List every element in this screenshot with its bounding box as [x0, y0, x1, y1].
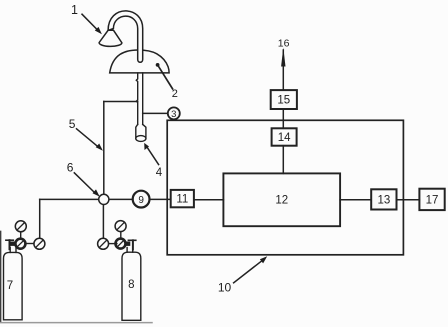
svg-text:13: 13 [378, 194, 391, 206]
svg-text:6: 6 [67, 160, 74, 174]
svg-text:4: 4 [156, 167, 163, 179]
svg-text:7: 7 [7, 280, 13, 292]
svg-text:10: 10 [218, 281, 232, 295]
svg-text:2: 2 [172, 88, 178, 100]
svg-text:11: 11 [176, 194, 188, 206]
svg-text:9: 9 [138, 195, 144, 206]
svg-text:16: 16 [278, 37, 290, 49]
svg-text:14: 14 [278, 132, 291, 144]
svg-text:1: 1 [71, 3, 78, 17]
svg-text:8: 8 [128, 279, 134, 291]
svg-text:12: 12 [275, 195, 288, 207]
svg-text:3: 3 [171, 109, 176, 120]
svg-text:5: 5 [69, 117, 76, 131]
svg-text:17: 17 [426, 194, 439, 206]
svg-text:15: 15 [277, 95, 290, 107]
